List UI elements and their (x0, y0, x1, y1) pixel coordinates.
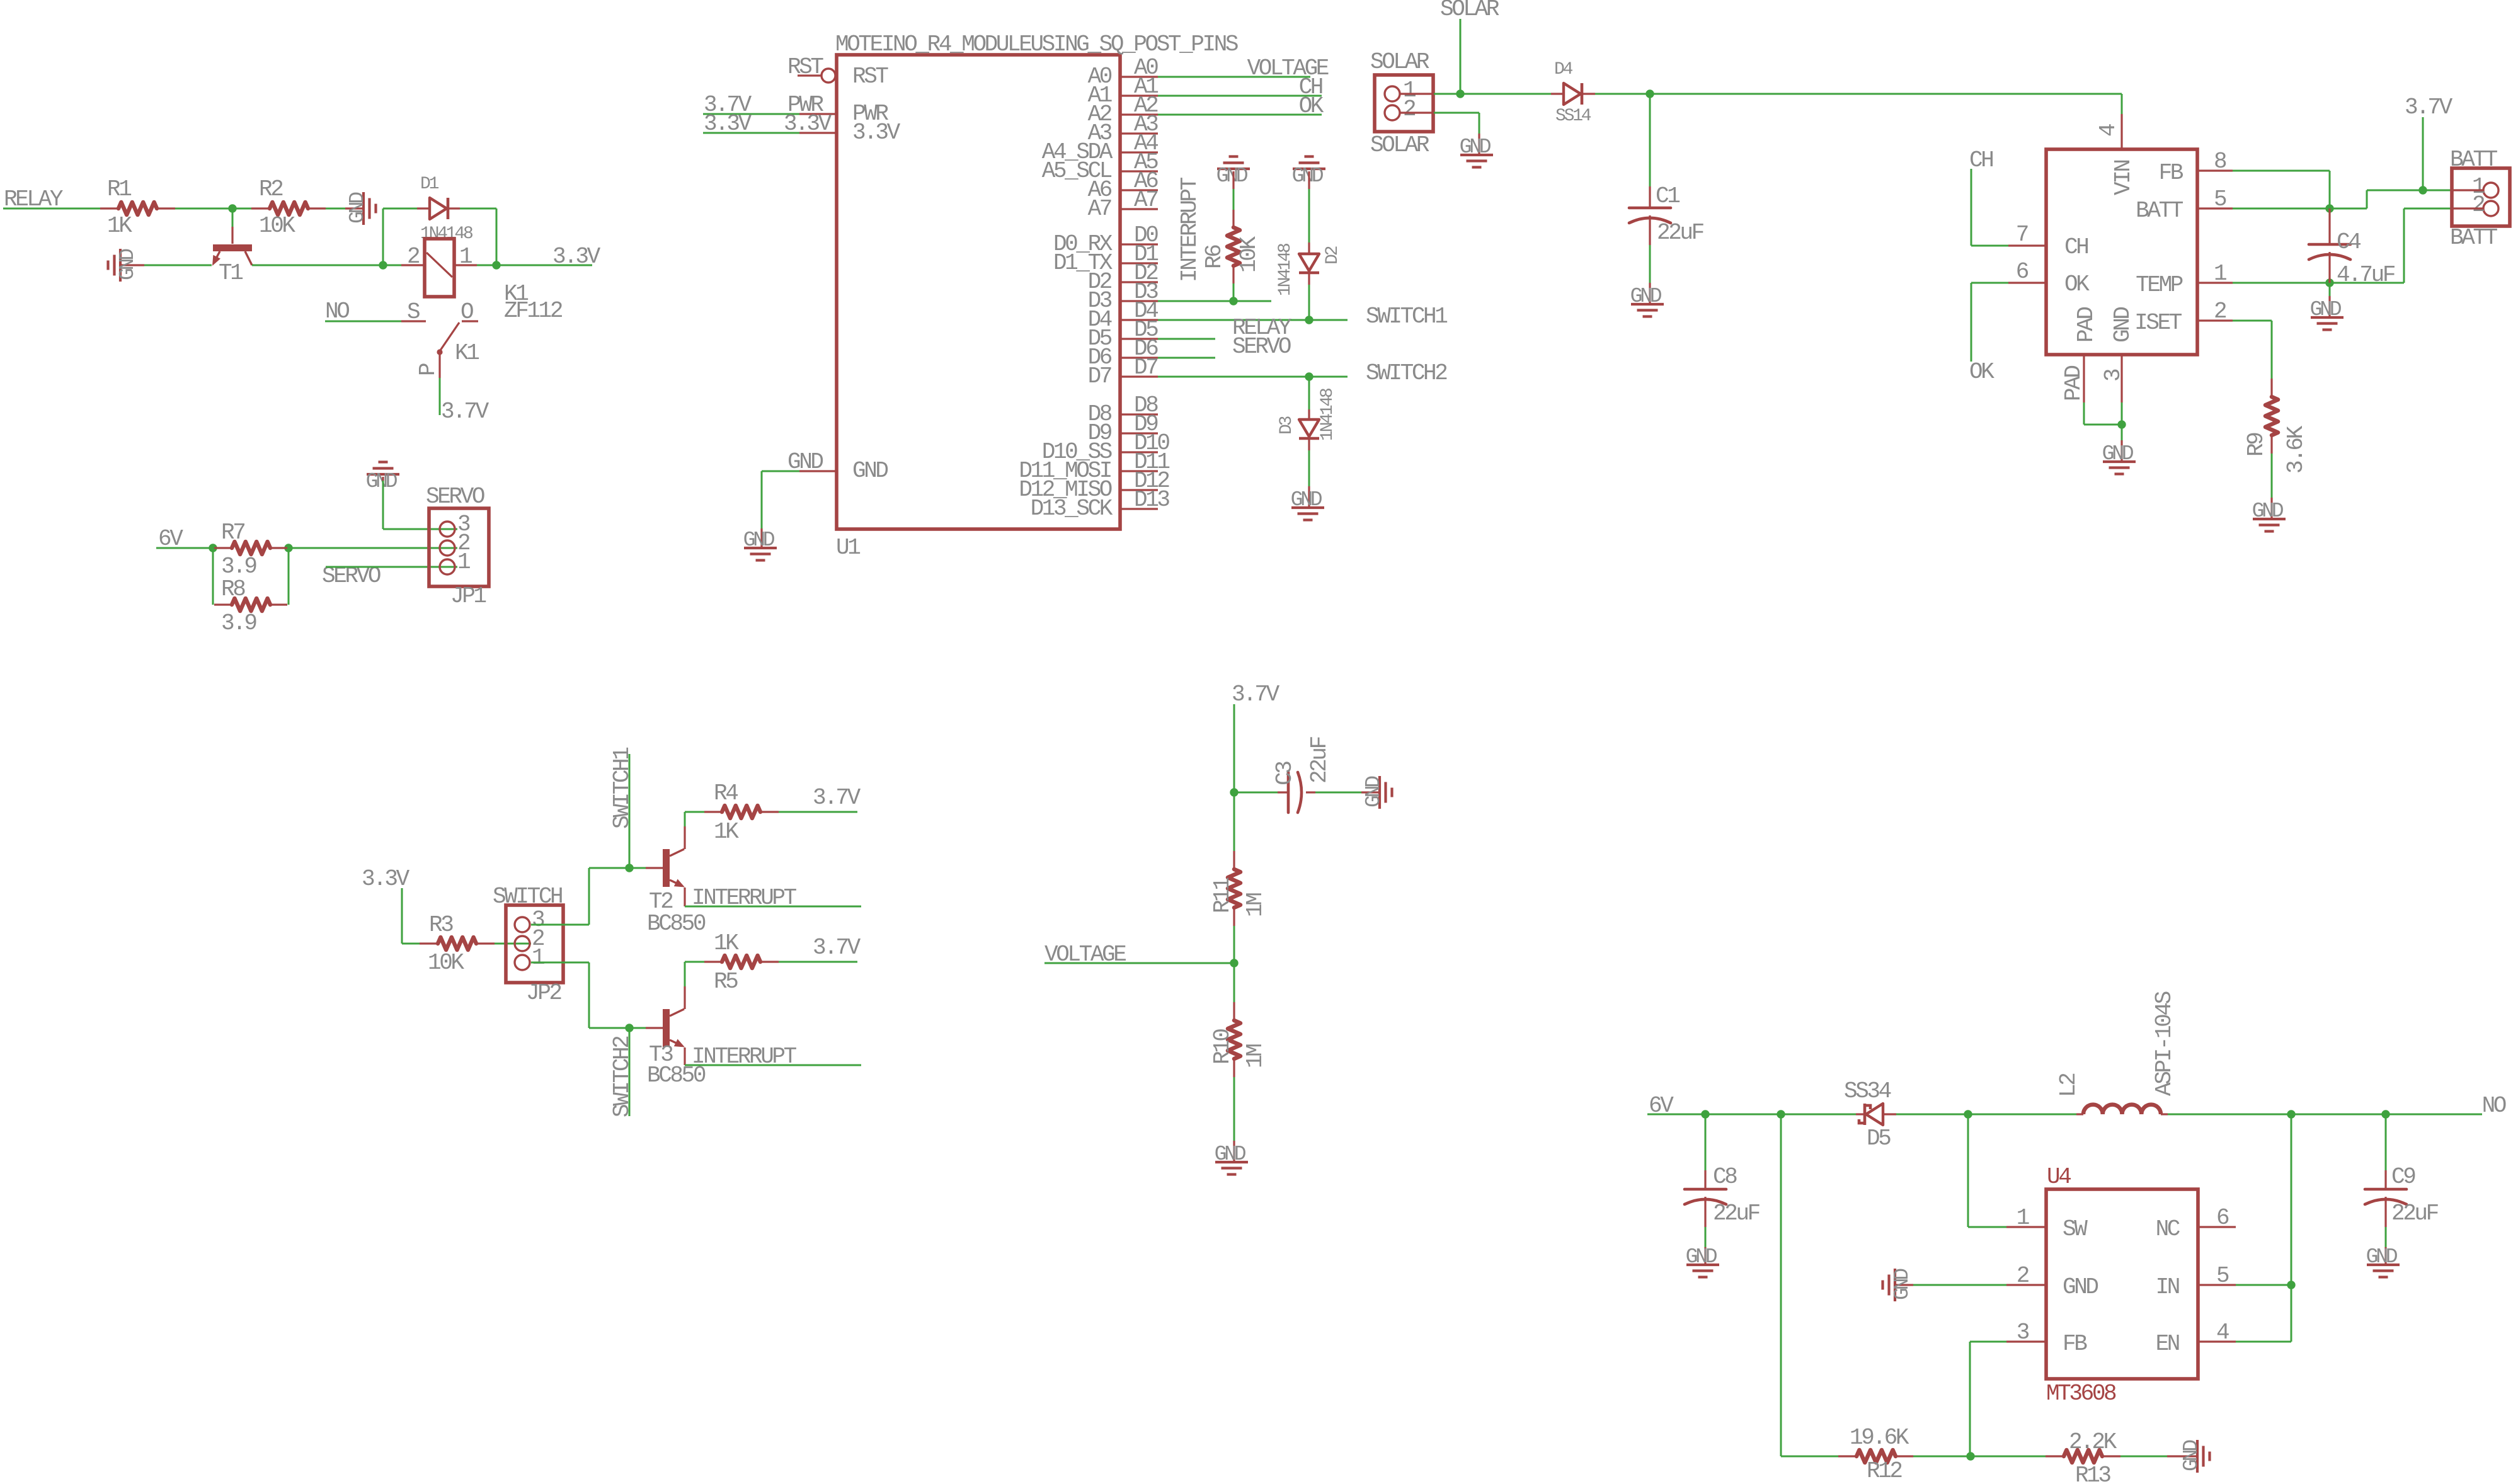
svg-text:GND: GND (2252, 499, 2284, 523)
svg-text:SW: SW (2063, 1216, 2088, 1242)
svg-text:NO: NO (2482, 1093, 2506, 1119)
svg-text:D7: D7 (1088, 363, 1111, 389)
svg-text:3.7V: 3.7V (813, 935, 861, 961)
svg-text:CH: CH (1969, 147, 1993, 173)
svg-text:T1: T1 (219, 260, 243, 286)
svg-text:1K: 1K (107, 213, 132, 239)
svg-text:OK: OK (1969, 359, 1994, 385)
svg-text:FB: FB (2159, 160, 2183, 186)
svg-text:PAD: PAD (2061, 366, 2086, 401)
svg-text:GND: GND (1292, 164, 1324, 188)
svg-text:FB: FB (2063, 1331, 2087, 1357)
svg-text:22uF: 22uF (1713, 1201, 1760, 1226)
svg-text:5: 5 (2214, 186, 2226, 212)
svg-text:19.6K: 19.6K (1850, 1425, 1909, 1451)
svg-text:CH: CH (2064, 234, 2088, 260)
svg-text:1K: 1K (714, 930, 739, 956)
svg-text:JP1: JP1 (450, 583, 486, 609)
svg-text:22uF: 22uF (1657, 220, 1704, 246)
svg-text:EN: EN (2156, 1331, 2179, 1357)
svg-text:C4: C4 (2337, 229, 2361, 255)
svg-text:ZF112: ZF112 (504, 298, 563, 324)
svg-text:BC850: BC850 (647, 911, 706, 937)
svg-text:R10: R10 (1210, 1029, 1235, 1064)
svg-text:R1: R1 (107, 176, 131, 202)
svg-text:D1: D1 (420, 174, 439, 194)
svg-text:R8: R8 (221, 576, 245, 602)
svg-text:SWITCH1: SWITCH1 (609, 748, 635, 829)
svg-text:IN: IN (2156, 1274, 2179, 1300)
svg-text:R3: R3 (429, 912, 453, 938)
svg-text:TEMP: TEMP (2136, 272, 2183, 298)
svg-text:5: 5 (2216, 1263, 2229, 1289)
svg-text:3.7V: 3.7V (441, 399, 489, 425)
svg-text:3.3V: 3.3V (552, 244, 601, 270)
svg-text:GND: GND (1215, 1143, 1246, 1166)
svg-text:INTERRUPT: INTERRUPT (692, 885, 797, 911)
svg-text:U4: U4 (2047, 1164, 2071, 1190)
svg-text:D3: D3 (1277, 416, 1296, 435)
svg-text:10K: 10K (428, 950, 464, 976)
svg-text:GND: GND (1630, 285, 1662, 308)
svg-text:SS34: SS34 (1844, 1078, 1891, 1104)
svg-text:C8: C8 (1713, 1164, 1737, 1190)
svg-text:10K: 10K (259, 213, 295, 239)
svg-text:PAD: PAD (2073, 307, 2099, 343)
svg-text:GND: GND (2110, 307, 2136, 343)
svg-text:3: 3 (2100, 369, 2126, 382)
svg-text:3.3V: 3.3V (362, 866, 410, 892)
svg-text:BATT: BATT (2450, 147, 2498, 173)
svg-text:6: 6 (2216, 1205, 2229, 1231)
svg-text:1: 1 (2214, 261, 2226, 287)
svg-text:MOTEINO_R4_MODULEUSING_SQ_POST: MOTEINO_R4_MODULEUSING_SQ_POST_PINS (835, 31, 1238, 57)
svg-text:1: 1 (457, 549, 470, 575)
svg-text:A7: A7 (1134, 187, 1157, 213)
svg-text:R6: R6 (1201, 245, 1227, 269)
svg-text:R11: R11 (1210, 878, 1235, 913)
svg-text:GND: GND (366, 470, 398, 493)
svg-text:R4: R4 (714, 780, 738, 806)
svg-text:GND: GND (2366, 1245, 2398, 1269)
svg-text:R9: R9 (2243, 433, 2269, 457)
svg-text:D2: D2 (1323, 246, 1342, 265)
svg-text:R7: R7 (221, 520, 244, 545)
svg-text:2: 2 (407, 244, 420, 270)
svg-text:1: 1 (2017, 1205, 2029, 1231)
svg-text:GND: GND (1460, 135, 1491, 159)
svg-text:4: 4 (2095, 124, 2121, 137)
svg-text:3.6K: 3.6K (2283, 425, 2309, 474)
svg-text:SOLAR: SOLAR (1370, 49, 1429, 75)
svg-text:BATT: BATT (2136, 198, 2183, 224)
svg-text:R5: R5 (714, 969, 738, 995)
svg-text:A7: A7 (1088, 196, 1111, 222)
svg-text:OK: OK (1299, 93, 1324, 119)
svg-text:GND: GND (116, 249, 139, 280)
svg-text:GND: GND (2180, 1440, 2203, 1471)
svg-text:BATT: BATT (2450, 225, 2498, 251)
svg-text:SWITCH2: SWITCH2 (1366, 360, 1447, 386)
svg-text:ISET: ISET (2134, 310, 2182, 336)
svg-text:D13_SCK: D13_SCK (1031, 496, 1113, 522)
svg-text:1N4148: 1N4148 (1318, 389, 1337, 441)
svg-text:2: 2 (1403, 96, 1416, 122)
svg-text:3.9: 3.9 (221, 554, 256, 579)
svg-text:JP2: JP2 (526, 980, 561, 1006)
svg-text:3.9: 3.9 (221, 610, 256, 636)
svg-text:P: P (415, 363, 441, 376)
svg-text:2.2K: 2.2K (2069, 1429, 2117, 1455)
svg-text:GND: GND (852, 458, 888, 484)
svg-text:10K: 10K (1236, 236, 1262, 273)
svg-text:INTERRUPT: INTERRUPT (692, 1044, 797, 1070)
svg-text:3: 3 (2017, 1320, 2029, 1345)
svg-text:SERVO: SERVO (426, 484, 484, 510)
svg-text:K1: K1 (455, 340, 479, 366)
svg-text:22uF: 22uF (2391, 1201, 2439, 1226)
svg-text:1N4148: 1N4148 (420, 224, 472, 244)
svg-text:7: 7 (2016, 222, 2028, 248)
svg-text:NC: NC (2156, 1216, 2180, 1242)
svg-text:U1: U1 (836, 535, 860, 561)
svg-text:GND: GND (2063, 1274, 2098, 1300)
svg-text:R12: R12 (1867, 1458, 1902, 1484)
svg-text:GND: GND (743, 528, 775, 552)
svg-text:2: 2 (2214, 299, 2226, 324)
svg-text:GND: GND (2310, 298, 2342, 321)
svg-text:2: 2 (2017, 1263, 2029, 1289)
svg-text:S: S (407, 299, 420, 325)
svg-text:D4: D4 (1554, 60, 1573, 79)
svg-text:GND: GND (1291, 488, 1322, 511)
svg-text:ASPI-104S: ASPI-104S (2151, 991, 2177, 1096)
svg-text:4.7uF: 4.7uF (2337, 262, 2395, 288)
svg-text:RST: RST (852, 64, 888, 89)
svg-text:1: 1 (532, 945, 544, 971)
svg-text:1K: 1K (714, 819, 739, 845)
svg-text:INTERRUPT: INTERRUPT (1177, 177, 1203, 282)
svg-text:SOLAR: SOLAR (1440, 0, 1499, 22)
svg-text:R13: R13 (2075, 1463, 2110, 1484)
svg-text:SOLAR: SOLAR (1370, 132, 1429, 158)
svg-text:4: 4 (2216, 1320, 2229, 1345)
svg-text:GND: GND (1216, 164, 1248, 188)
svg-text:GND: GND (1686, 1245, 1717, 1269)
svg-text:SWITCH1: SWITCH1 (1366, 304, 1447, 329)
svg-text:SS14: SS14 (1555, 106, 1591, 126)
svg-text:1N4148: 1N4148 (1276, 244, 1295, 296)
svg-text:3.7V: 3.7V (2405, 94, 2453, 120)
svg-text:SWITCH: SWITCH (493, 884, 562, 910)
svg-text:D7: D7 (1134, 355, 1157, 380)
svg-text:VIN: VIN (2110, 161, 2136, 195)
svg-text:8: 8 (2214, 149, 2226, 174)
svg-text:C3: C3 (1272, 762, 1298, 785)
svg-text:GND: GND (1891, 1269, 1914, 1300)
svg-text:6: 6 (2016, 259, 2029, 285)
svg-text:GND: GND (346, 192, 369, 224)
svg-text:SERVO: SERVO (1232, 334, 1291, 360)
svg-text:GND: GND (2102, 442, 2134, 465)
svg-text:1M: 1M (1242, 893, 1268, 917)
svg-text:OK: OK (2064, 271, 2090, 297)
svg-text:MT3608: MT3608 (2046, 1381, 2116, 1407)
svg-text:R2: R2 (259, 176, 283, 202)
svg-text:D13: D13 (1134, 487, 1169, 513)
svg-text:3.3V: 3.3V (852, 120, 901, 146)
svg-text:C9: C9 (2391, 1164, 2415, 1190)
svg-text:2: 2 (2472, 192, 2485, 218)
svg-text:3.7V: 3.7V (1232, 682, 1280, 707)
svg-text:1M: 1M (1242, 1044, 1268, 1068)
svg-text:GND: GND (1362, 776, 1385, 808)
svg-text:3.7V: 3.7V (813, 785, 861, 811)
svg-text:D5: D5 (1867, 1126, 1891, 1151)
svg-text:L2: L2 (2056, 1073, 2081, 1097)
svg-text:22uF: 22uF (1307, 736, 1332, 784)
svg-text:SWITCH2: SWITCH2 (609, 1036, 635, 1117)
svg-text:C1: C1 (1656, 183, 1680, 209)
